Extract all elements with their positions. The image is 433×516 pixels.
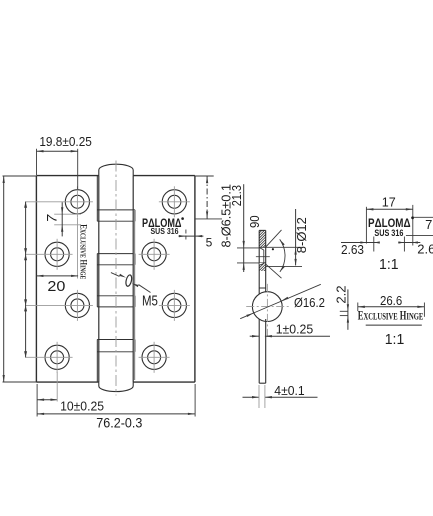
barrel bearing washer bands — [97, 210, 135, 352]
section hole edges — [256, 247, 270, 262]
detail dim 2.63 right — [398, 237, 433, 257]
section hatch lower — [259, 256, 266, 278]
svg-text:2.63: 2.63 — [417, 242, 433, 257]
countersink profile in section — [260, 248, 264, 266]
svg-text:8-Ø6.5±0.1: 8-Ø6.5±0.1 — [219, 184, 234, 248]
svg-text:5: 5 — [206, 236, 213, 250]
svg-text:8-Ø12: 8-Ø12 — [294, 217, 309, 253]
dim 90 text — [247, 215, 262, 228]
detail dim 7 text — [425, 217, 432, 232]
SUS 316 (left view) — [151, 227, 179, 236]
svg-text:1:1: 1:1 — [379, 256, 399, 273]
section bar outline — [259, 230, 266, 383]
screw hole 5 — [25, 290, 93, 321]
dim 4±0.1 line — [243, 385, 318, 408]
screw hole 2 — [159, 186, 190, 217]
screw hole 7 — [25, 342, 73, 373]
section bar joint line — [259, 287, 266, 289]
svg-text:90: 90 — [247, 215, 262, 228]
dim 10±0.25 text — [60, 399, 104, 414]
overall height dim line — [3, 176, 37, 382]
detail 1:1 label (top) — [379, 256, 399, 273]
barrel bottom cap — [99, 382, 133, 391]
svg-text:M5: M5 — [142, 293, 158, 309]
dim 76.2 line — [37, 384, 195, 417]
Ø16.2 leader — [240, 284, 321, 318]
svg-text:20: 20 — [47, 279, 65, 295]
svg-text:SUS 316: SUS 316 — [151, 227, 179, 236]
svg-text:SUS 316: SUS 316 — [374, 228, 403, 238]
svg-text:EXCLUSIVE HINGE: EXCLUSIVE HINGE — [78, 224, 88, 279]
dim 10 line — [37, 372, 57, 402]
hinge leaf outline (front view) — [36, 176, 195, 383]
svg-text:4±0.1: 4±0.1 — [274, 383, 304, 398]
right leaf edge shadow — [133, 210, 135, 380]
M5 oil hole ellipse — [125, 274, 133, 286]
svg-text:7: 7 — [43, 213, 59, 222]
dim 4±0.1 text — [274, 383, 304, 398]
svg-text:Ø16.2: Ø16.2 — [294, 295, 325, 310]
dim 20 line — [36, 275, 78, 277]
svg-text:26.6: 26.6 — [380, 293, 402, 308]
EXCLUSIVE HINGE text (detail) — [358, 308, 424, 322]
M5 label — [142, 293, 158, 309]
screw hole 3 — [25, 239, 73, 270]
PALOMA logo (left view) — [142, 217, 184, 230]
dim 21.3 line — [195, 176, 222, 219]
detail dim 17 text — [382, 195, 396, 210]
dim 5 text — [206, 236, 213, 250]
detail dim 26.6 line — [358, 303, 425, 317]
dim 7 text — [43, 213, 59, 222]
dim 1±0.25 line — [250, 335, 330, 337]
detail dim 2.2 lines — [340, 289, 349, 329]
PALOMA logo (detail) — [368, 216, 414, 229]
detail dim 2.2 text — [334, 285, 349, 303]
screw hole 8 — [139, 342, 170, 373]
dim 19.8±0.25 text — [39, 134, 92, 149]
barrel top cap — [99, 164, 133, 175]
svg-text:76.2-0.3: 76.2-0.3 — [96, 415, 142, 431]
dim 8-Ø6.5 lines — [237, 184, 259, 272]
screw hole 4 — [139, 239, 170, 270]
barrel centerline — [115, 161, 117, 396]
circle centerlines — [246, 284, 290, 338]
dim 76.2-0.3 text — [96, 415, 142, 431]
svg-text:2.63: 2.63 — [341, 242, 364, 257]
svg-text:10±0.25: 10±0.25 — [60, 399, 104, 414]
detail dim 2.63 left — [341, 237, 380, 257]
svg-text:17: 17 — [382, 195, 396, 210]
barrel circle (section) — [252, 292, 282, 322]
countersink cone line lower — [266, 264, 282, 278]
underline — [366, 324, 422, 326]
dim 1±0.25 text — [276, 322, 314, 337]
M5 leader line — [111, 273, 151, 293]
EXCLUSIVE HINGE vertical text — [78, 224, 88, 279]
dim 19.8 line — [37, 149, 78, 190]
left leaf edge behind barrel — [96, 176, 98, 382]
svg-text:2.2: 2.2 — [334, 285, 349, 303]
SUS 316 (detail) — [374, 228, 403, 238]
detail dim 7 lines — [406, 217, 433, 235]
90 degree angle arc — [272, 239, 285, 272]
dim Ø16.2 text — [294, 295, 325, 310]
detail 1:1 label (bottom) — [385, 331, 405, 348]
svg-text:19.8±0.25: 19.8±0.25 — [39, 134, 92, 149]
dim 5 line — [179, 230, 204, 242]
section hatch upper — [259, 224, 266, 254]
hole row chain dim — [24, 202, 27, 357]
svg-text:EXCLUSIVE HINGE: EXCLUSIVE HINGE — [358, 308, 424, 322]
screw hole 1 — [25, 186, 93, 217]
barrel knuckle column — [99, 176, 133, 383]
hole column ext line — [77, 218, 79, 279]
dim 7 lines — [54, 202, 81, 236]
screw hole 6 — [159, 290, 190, 321]
dim 8-Ø12 lines — [266, 209, 302, 266]
svg-text:1±0.25: 1±0.25 — [276, 322, 314, 337]
dim 21.3 text — [229, 185, 244, 206]
dim 8-Ø6.5±0.1 text — [219, 184, 234, 248]
svg-text:7: 7 — [425, 217, 432, 232]
detail dim 26.6 text — [380, 293, 402, 308]
detail dim 17 line — [366, 205, 412, 246]
svg-text:1:1: 1:1 — [385, 331, 405, 348]
countersink cone line upper — [266, 230, 282, 247]
dim 8-Ø12 text — [294, 217, 309, 253]
dim 20 text — [47, 279, 65, 295]
